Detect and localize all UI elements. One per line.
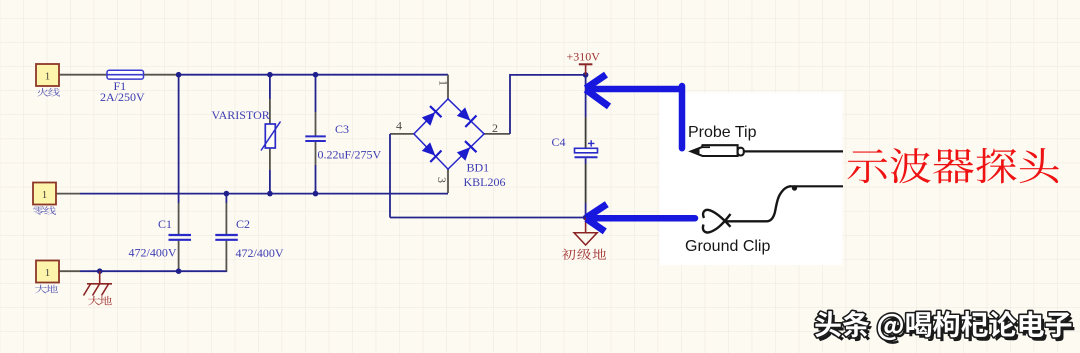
svg-text:KBL206: KBL206 (464, 175, 506, 189)
diode BD1 lower-right (455, 141, 476, 162)
fuse F1 (107, 70, 144, 79)
pin C2 bottom (225, 241, 227, 272)
svg-text:472/400V: 472/400V (129, 246, 177, 260)
wire C3 branch bottom (315, 165, 317, 194)
svg-text:2A/250V: 2A/250V (100, 90, 145, 104)
wire C4 below plate (585, 158, 587, 164)
label huoxian (live) (37, 88, 60, 97)
label chujidi (primary ground) (562, 249, 606, 261)
svg-text:0.22uF/275V: 0.22uF/275V (318, 148, 382, 162)
junction neutral-varistor (267, 191, 273, 197)
junction earth-C1 (176, 268, 182, 274)
pin varistor bottom (269, 148, 271, 170)
pin BD1-4 (390, 133, 414, 135)
watermark shadow (818, 315, 1074, 344)
svg-text:C1: C1 (158, 217, 172, 231)
wire varistor branch top (269, 75, 271, 99)
wire fuse right to junction (144, 74, 177, 76)
probe tip drawing (691, 145, 843, 156)
pin C2 top (225, 203, 227, 234)
wire bottom rail to C4 node (390, 217, 586, 219)
svg-text:+310V: +310V (567, 50, 601, 64)
white panel behind probe drawings (660, 93, 843, 266)
ground clip wire dot (792, 185, 797, 190)
pin C3 top (315, 112, 317, 136)
capacitor C4 polarized (575, 140, 598, 157)
wire BD1-4 to bottom node (389, 134, 391, 218)
diode BD1 upper-right (455, 106, 476, 127)
svg-text:2: 2 (492, 121, 498, 135)
capacitor C1 (169, 235, 192, 240)
diode BD1 lower-left (420, 141, 441, 162)
svg-text:472/400V: 472/400V (236, 246, 284, 260)
pin C4 bottom (585, 164, 587, 203)
junction live-C3 (313, 72, 319, 78)
svg-text:Ground Clip: Ground Clip (685, 238, 770, 255)
wire C1 branch upper (178, 75, 180, 203)
wire live rail (176, 74, 448, 76)
label lingxian (neutral) (33, 206, 56, 215)
pin C3 bottom (315, 142, 317, 165)
capacitor C3 (305, 136, 326, 141)
annotation arrow to ground node (587, 204, 696, 231)
label dadi red (earth) (88, 296, 112, 306)
svg-text:1: 1 (42, 189, 48, 201)
wire C3 branch top (315, 75, 317, 112)
wire earth rail pin (59, 270, 80, 272)
ground clip drawing (703, 186, 843, 232)
wire earth rail (80, 270, 227, 272)
pin C1 top (178, 203, 180, 234)
svg-text:3: 3 (435, 177, 449, 183)
wire live rail left (pin of connector P1 to fuse) (59, 74, 107, 76)
pin BD1-1 (447, 75, 449, 99)
pin C4 top (585, 117, 587, 148)
wire C2 branch (225, 194, 227, 203)
capacitor C2 (215, 235, 238, 240)
svg-text:C2: C2 (236, 217, 250, 231)
junction bottom C4 node (583, 215, 589, 221)
wire BD1-2 to +310V node (510, 75, 586, 134)
junction neutral-C2 (224, 191, 230, 197)
wire neutral rail pin (56, 193, 80, 195)
big red annotation text (oscilloscope probe) (847, 148, 1058, 184)
diode BD1 upper-left (420, 106, 441, 127)
label dadi (earth) (35, 285, 58, 294)
pin varistor top (269, 99, 271, 124)
junction neutral-C3 (313, 191, 319, 197)
connector P2 neutral terminal (33, 183, 56, 205)
power port +310V (567, 50, 601, 75)
junction earth symbol (97, 268, 103, 274)
pin BD1-2 (484, 133, 510, 135)
wire +310V node down to C4 (585, 75, 587, 117)
connector P1 live terminal (36, 64, 59, 86)
ground primary (chujidi) (574, 218, 597, 246)
svg-text:4: 4 (396, 118, 402, 132)
junction live-varistor (267, 72, 273, 78)
svg-text:VARISTOR: VARISTOR (212, 108, 270, 122)
svg-text:1: 1 (45, 70, 51, 82)
varistor RV (261, 122, 281, 151)
wire C4 to bottom node (585, 203, 587, 218)
pin C1 bottom (178, 241, 180, 272)
svg-text:1: 1 (45, 267, 51, 279)
svg-text:BD1: BD1 (467, 161, 490, 175)
connector P3 earth terminal (36, 261, 59, 283)
wire neutral rail (80, 193, 448, 195)
svg-text:C3: C3 (335, 122, 349, 136)
watermark (815, 311, 1071, 340)
bridge rectifier BD1 (414, 99, 484, 169)
pin BD1-3 (447, 169, 449, 193)
junction live-C1 (176, 72, 182, 78)
earth ground symbol (84, 271, 113, 295)
junction +310V node (583, 72, 589, 78)
annotation arrow to +310V (586, 75, 683, 149)
svg-text:Probe Tip: Probe Tip (688, 124, 757, 141)
wire varistor branch bottom (269, 170, 271, 194)
svg-text:C4: C4 (552, 135, 566, 149)
svg-text:1: 1 (436, 80, 450, 86)
